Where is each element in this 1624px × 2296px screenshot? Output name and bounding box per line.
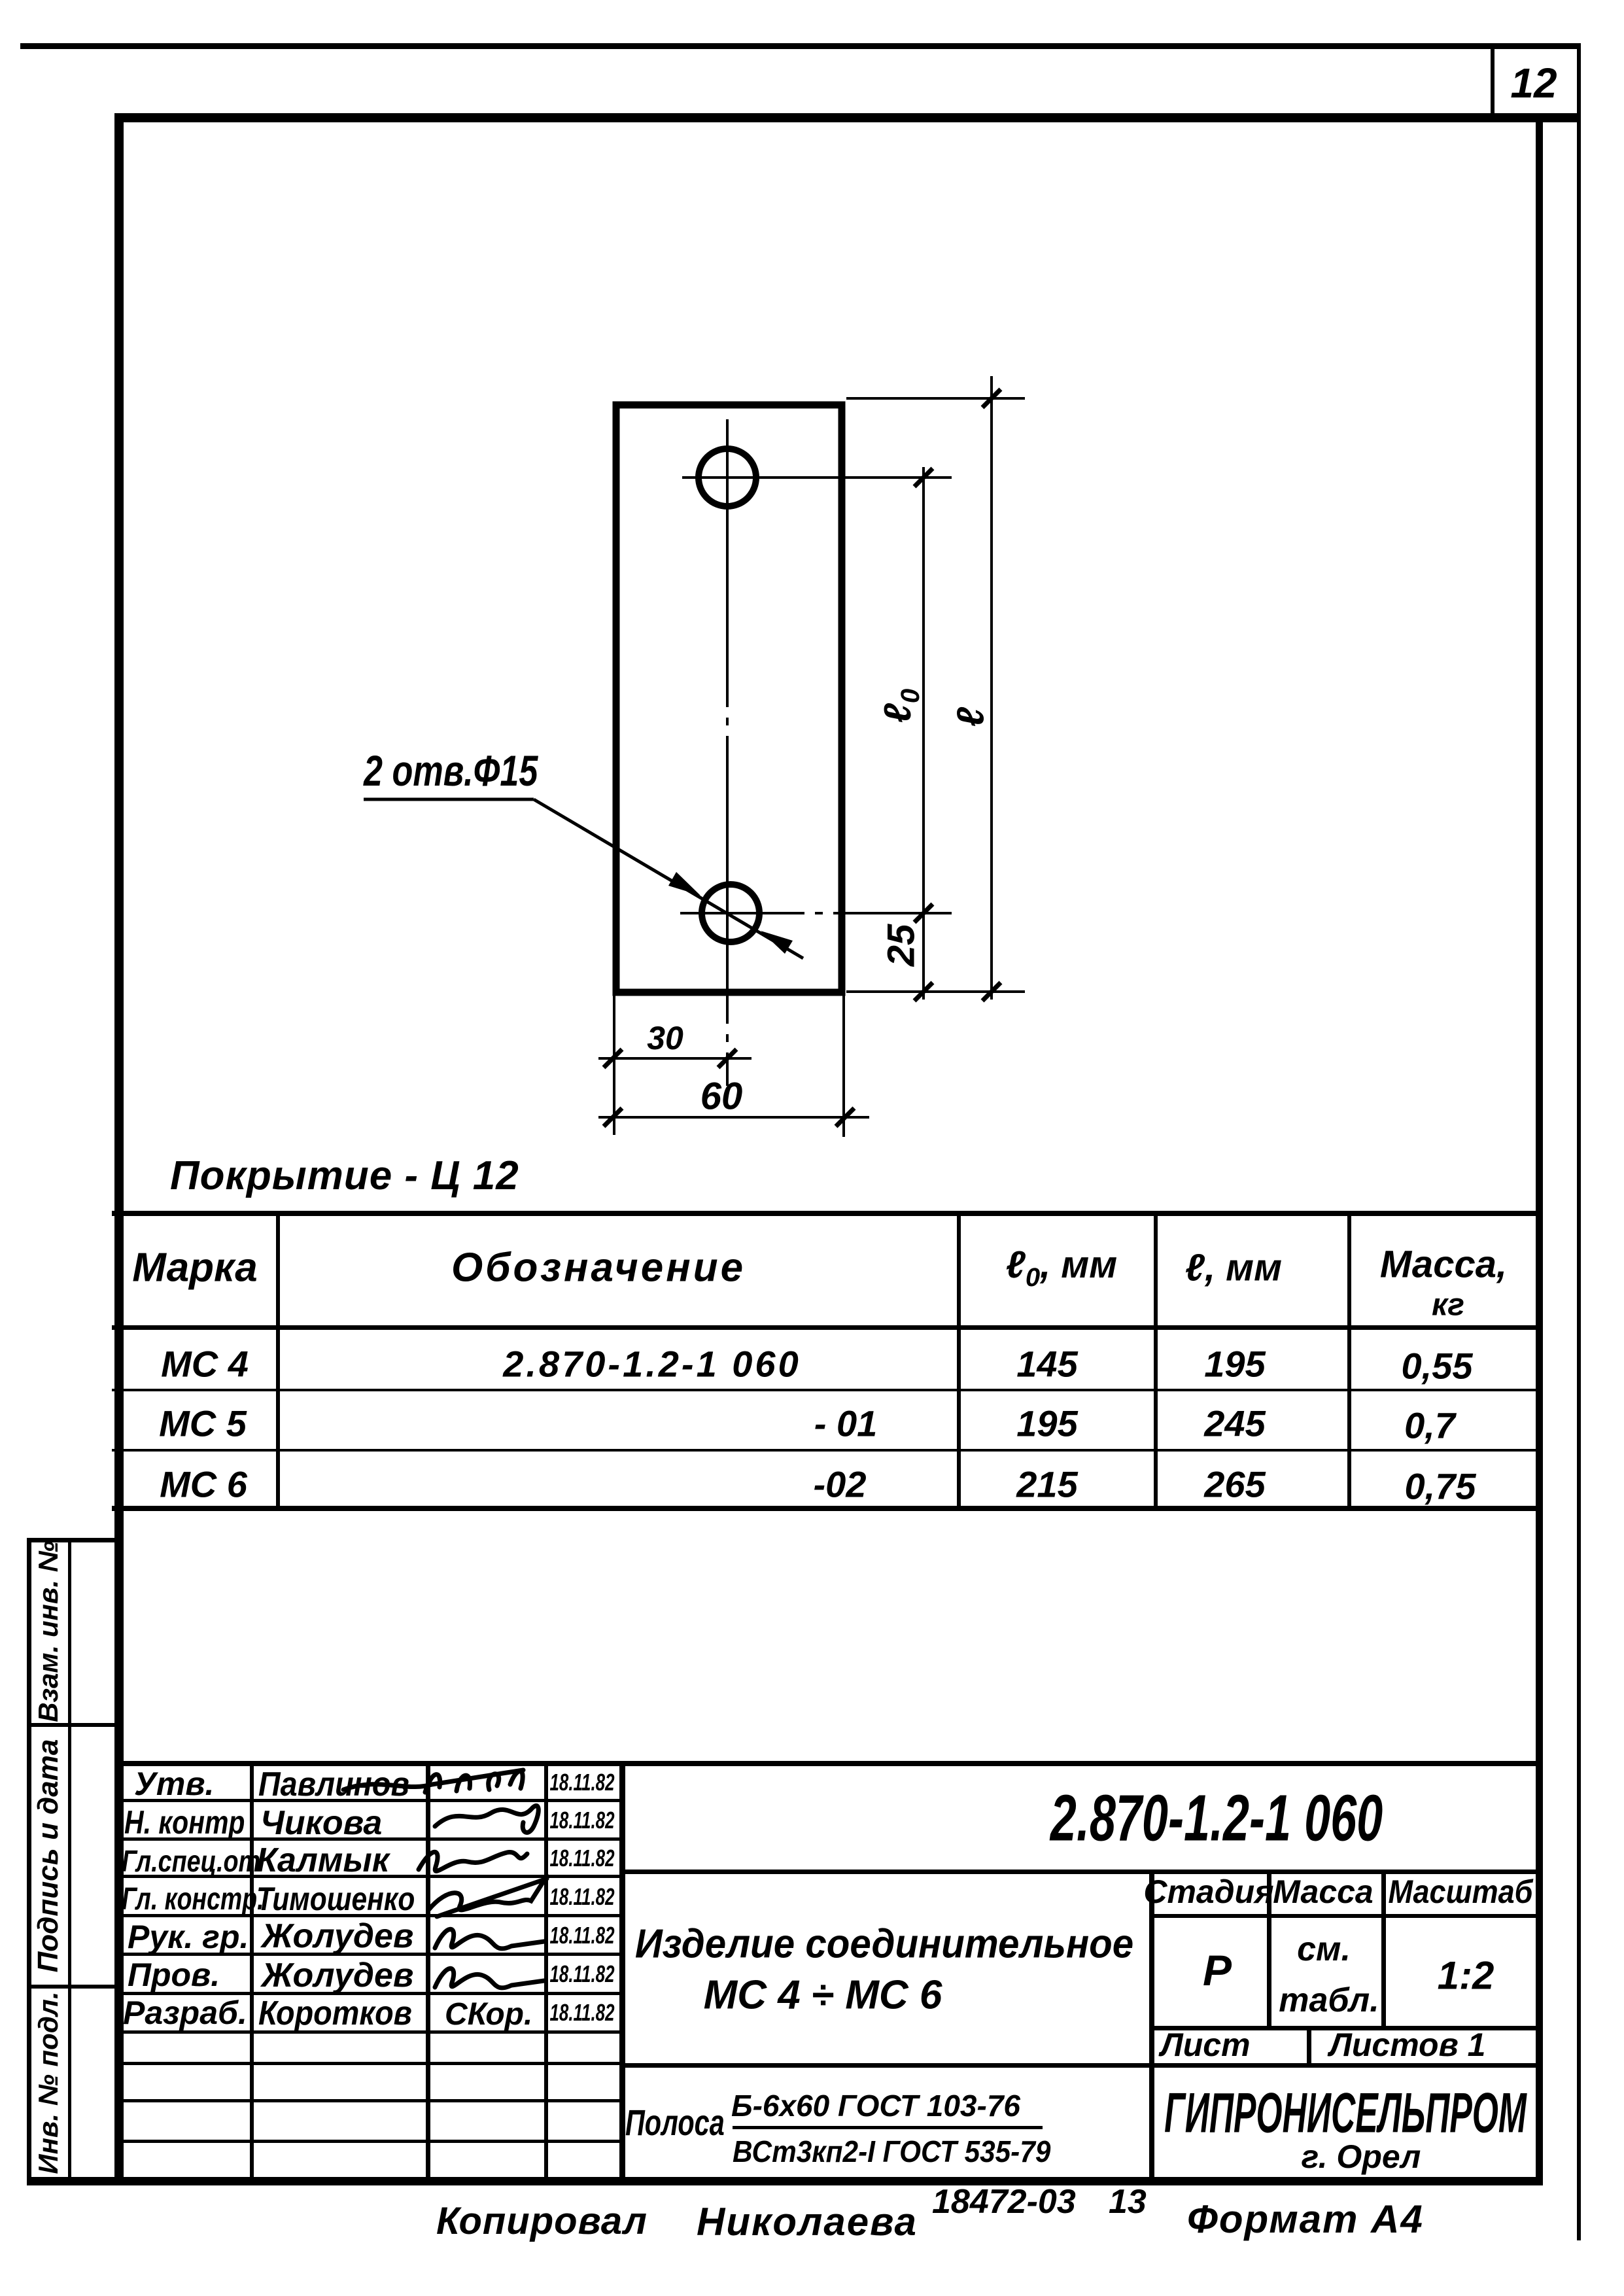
table row МС5 values <box>159 1402 247 1445</box>
dim text 60 <box>700 1075 743 1119</box>
leader line 2 отв Ф15 <box>534 799 803 958</box>
tick L bottom <box>982 983 1001 1001</box>
bottom strip Копировал <box>436 2199 648 2243</box>
vertical centerline <box>726 419 729 1086</box>
масштаб <box>1388 1873 1532 1911</box>
doc number 2.870-1.2-1 060 <box>1050 1781 1383 1856</box>
signature Рук.гр. Жолудев <box>435 1929 544 1949</box>
table header L0,мм <box>1006 1243 1117 1293</box>
signature Разраб. СКор. <box>445 1996 532 2032</box>
title block date entries 18.11.82 <box>550 1769 615 1796</box>
стадия <box>1143 1873 1273 1911</box>
table row line 1 <box>112 1389 1541 1391</box>
dimension line L0 <box>922 467 925 1000</box>
dim text L0 rotated <box>876 689 925 723</box>
table top border <box>112 1211 1541 1216</box>
table header bottom line <box>112 1325 1541 1330</box>
plate outline <box>616 405 842 992</box>
leader underline <box>364 798 534 801</box>
bottom hole horizontal centerline <box>680 912 952 914</box>
main frame right border <box>1536 113 1543 2185</box>
dim text 25 rotated <box>880 924 924 967</box>
bottom extension line for L0 and L <box>846 990 1025 993</box>
масса см. <box>1297 1930 1351 1969</box>
role column divider <box>250 1761 254 2182</box>
left sidebar inner divider <box>68 1538 71 2185</box>
масса/масштаб divider <box>1381 1870 1386 2026</box>
sheet outer right line <box>1577 43 1581 2240</box>
table column L divider <box>1347 1211 1351 1511</box>
стадия Р <box>1203 1945 1232 1995</box>
tick 60 right <box>836 1108 854 1126</box>
tick L top <box>982 389 1001 408</box>
signature Н.контр Чикова <box>435 1805 538 1832</box>
big cells bottom <box>1149 2026 1538 2030</box>
tick L0 at hole <box>914 904 933 922</box>
table header L,мм <box>1185 1246 1282 1290</box>
table header Масса,кг line2 <box>1432 1287 1464 1323</box>
tick 30 left <box>604 1049 622 1068</box>
main frame top border <box>114 113 1581 122</box>
title block main vertical divider <box>619 1761 625 2182</box>
date column divider <box>544 1761 548 2182</box>
sidebar label Взам. инв. № <box>33 1540 64 1722</box>
table bottom border <box>112 1506 1541 1511</box>
полоса fraction bar <box>733 2126 1043 2129</box>
полоса box top line <box>619 2063 1538 2068</box>
dim text L rotated <box>949 707 993 727</box>
left sidebar outer left line <box>27 1538 31 2185</box>
leader arrowhead upper <box>668 872 700 896</box>
tick L0 top <box>914 468 933 487</box>
tick L0 bottom <box>914 983 933 1001</box>
bottom strip 18472-03 <box>932 2182 1076 2221</box>
table header Масса,кг line1 <box>1380 1243 1507 1287</box>
signature Утв. Павлинов <box>343 1770 523 1790</box>
title block role and name texts <box>134 1765 214 1803</box>
right edge extension below plate <box>842 996 845 1137</box>
stamp right vertical divider <box>1149 1870 1154 2182</box>
лист/листов divider <box>1307 2026 1311 2064</box>
г. Орел <box>1302 2138 1421 2176</box>
масса <box>1273 1873 1373 1911</box>
left edge extension below plate <box>613 996 615 1135</box>
page number box left line <box>1491 46 1494 118</box>
полоса label <box>625 2101 725 2144</box>
dimension line 30 <box>598 1057 752 1060</box>
page number 12 <box>1510 59 1557 107</box>
table row line 2 <box>112 1449 1541 1452</box>
left sidebar divider row 1 <box>27 1723 118 1727</box>
bottom strip Формат А4 <box>1187 2197 1424 2242</box>
dimension line L <box>990 376 993 1000</box>
sidebar label Инв. № подл. <box>33 1991 64 2174</box>
left sidebar top line <box>27 1538 118 1542</box>
dim text 2 отв.Ф15 <box>364 746 538 795</box>
title МС4 - МС6 <box>704 1972 942 2019</box>
лист <box>1160 2026 1250 2064</box>
table row МС6 values <box>160 1463 247 1506</box>
table column L0 divider <box>1154 1211 1158 1511</box>
полоса fraction numerator <box>731 2088 1020 2123</box>
signature Гл.спец.отд Калмык <box>419 1852 527 1871</box>
масштаб 1:2 <box>1438 1953 1494 1998</box>
hole top <box>699 449 756 506</box>
table header Обозначение <box>451 1245 746 1291</box>
left sidebar divider row 2 <box>27 1985 118 1989</box>
top hole horizontal centerline <box>682 476 952 479</box>
dimension line 60 <box>598 1116 869 1119</box>
sheet outer top line <box>20 43 1581 49</box>
name column divider <box>426 1761 430 2182</box>
tick 60 left <box>604 1108 622 1126</box>
dim text 30 <box>647 1019 683 1057</box>
масса табл. <box>1279 1981 1379 2020</box>
leader arrowhead lower <box>761 931 793 954</box>
hole bottom <box>702 884 759 942</box>
полоса fraction denominator <box>733 2134 1050 2169</box>
table column Обозначение divider <box>957 1211 961 1511</box>
ГИПРОНИСЕЛЬПРОМ <box>1164 2081 1527 2146</box>
table header Марка <box>132 1245 257 1291</box>
main frame bottom border <box>27 2177 1543 2185</box>
table row МС4 values <box>161 1343 249 1385</box>
tick 30 right <box>718 1049 736 1068</box>
top extension line for L <box>846 397 1025 400</box>
sidebar label Подпись и дата <box>32 1739 65 1973</box>
signature Гл.констр Тимошенко <box>428 1876 547 1910</box>
signature rows lines <box>114 1799 619 1802</box>
table column Марка divider <box>276 1211 280 1511</box>
bottom strip 13 <box>1109 2182 1147 2221</box>
signature Пров. Жолудев <box>435 1968 544 1988</box>
main frame left border <box>114 113 124 2185</box>
title block top border <box>114 1761 1538 1766</box>
листов 1 <box>1330 2026 1486 2064</box>
стадия/масса divider <box>1267 1870 1271 2026</box>
note Покрытие - Ц12 <box>170 1153 519 1199</box>
doc number box bottom line <box>619 1870 1538 1874</box>
title Изделие соединительное <box>635 1921 1133 1968</box>
стадия header bottom <box>1149 1914 1538 1918</box>
bottom strip Николаева <box>697 2199 918 2244</box>
